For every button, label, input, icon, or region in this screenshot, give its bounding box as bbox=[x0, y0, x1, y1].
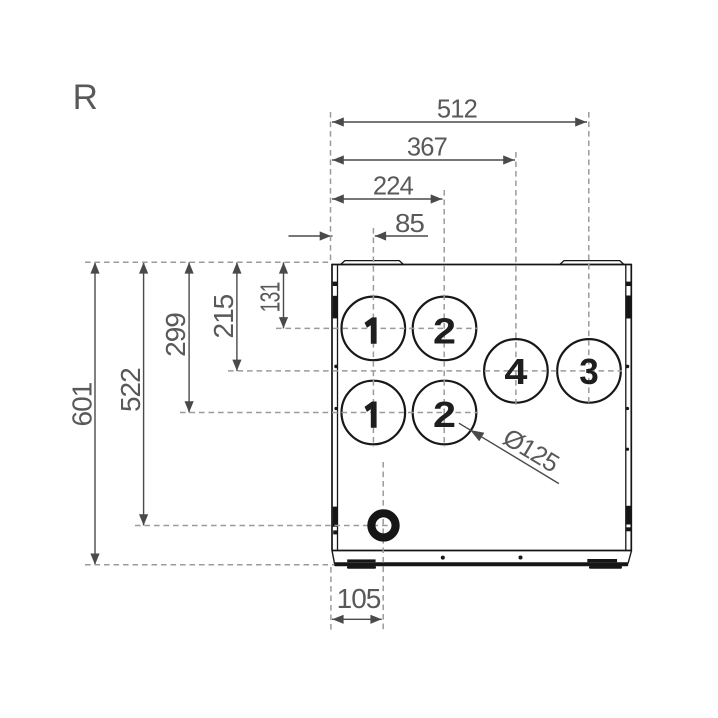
svg-text:3: 3 bbox=[579, 351, 599, 392]
svg-text:4: 4 bbox=[504, 351, 527, 392]
svg-text:2: 2 bbox=[433, 394, 456, 435]
svg-text:601: 601 bbox=[67, 382, 98, 426]
svg-text:367: 367 bbox=[407, 134, 447, 162]
svg-text:224: 224 bbox=[373, 173, 414, 201]
svg-text:215: 215 bbox=[208, 294, 239, 338]
svg-text:R: R bbox=[73, 78, 97, 117]
svg-text:512: 512 bbox=[437, 96, 477, 124]
svg-text:522: 522 bbox=[115, 368, 146, 412]
svg-text:299: 299 bbox=[160, 313, 191, 357]
svg-text:85: 85 bbox=[395, 210, 425, 238]
svg-text:105: 105 bbox=[337, 583, 381, 614]
svg-text:2: 2 bbox=[433, 310, 456, 351]
svg-text:131: 131 bbox=[255, 282, 286, 312]
